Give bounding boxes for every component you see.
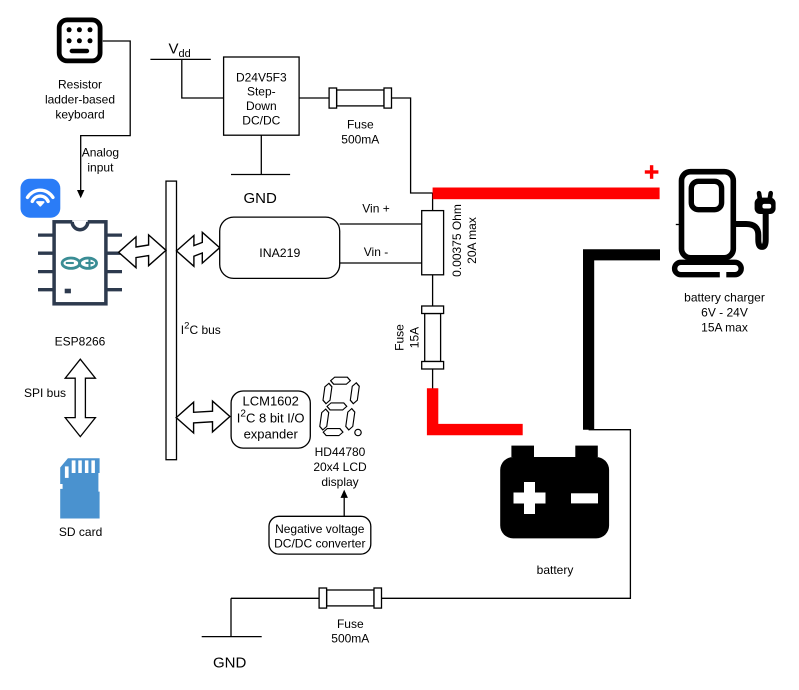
- resistor-ladder keyboard icon: [59, 20, 100, 61]
- wifi icon: [21, 179, 61, 218]
- shunt resistor R1 0.00375 Ohm: [422, 211, 444, 275]
- svg-text:I2C 8 bit I/O: I2C 8 bit I/O: [237, 409, 305, 426]
- ground GND (regulator): [260, 135, 262, 174]
- wire: red rail junction to shunt top: [432, 193, 434, 211]
- wire: Vin+: [340, 223, 422, 225]
- wire: thick black negative lead charger to battery: [589, 255, 660, 430]
- svg-text:Fuse500mA: Fuse500mA: [331, 617, 369, 645]
- wire: fuse F2 to red battery positive lead: [432, 369, 434, 389]
- svg-text:Vdd: Vdd: [169, 41, 191, 61]
- wire: thick red positive rail to charger: [433, 188, 660, 200]
- wire: battery negative return to fuse F3: [382, 430, 630, 599]
- svg-text:battery: battery: [537, 563, 574, 577]
- wire: shunt bottom to fuse F2: [432, 275, 434, 306]
- sensor U3 INA219: [220, 217, 340, 278]
- svg-text:Negative voltageDC/DC converte: Negative voltageDC/DC converter: [274, 522, 365, 550]
- bus link arrow: I2C bus to LCM1602: [176, 401, 230, 433]
- converter U5 negative voltage DC/DC: [269, 516, 371, 554]
- I2C bus bar: [166, 181, 177, 460]
- node: + polarity mark: [645, 165, 659, 179]
- svg-text:GND: GND: [244, 190, 278, 207]
- bus link arrow: ESP8266 to SD card (SPI): [65, 359, 95, 436]
- svg-text:Vin +: Vin +: [362, 202, 389, 216]
- svg-text:0.00375 Ohm20A max: 0.00375 Ohm20A max: [450, 204, 479, 277]
- expander U4 LCM1602 I2C 8-bit I/O: [231, 391, 310, 448]
- node Vdd: [150, 58, 210, 60]
- bus link arrow: ESP8266 to I2C bus: [119, 235, 166, 268]
- svg-text:Fuse15A: Fuse15A: [392, 324, 421, 351]
- wire: negative voltage converter to display: [343, 498, 345, 517]
- svg-text:Fuse500mA: Fuse500mA: [341, 117, 379, 146]
- svg-text:expander: expander: [244, 427, 299, 442]
- svg-text:HD4478020x4 LCDdisplay: HD4478020x4 LCDdisplay: [313, 445, 367, 489]
- fuse F1 500mA: [329, 88, 391, 108]
- fuse F3 500mA: [319, 588, 381, 608]
- battery B1 icon: [500, 446, 609, 539]
- wire: ground return to fuse F3: [231, 597, 319, 599]
- svg-text:SD card: SD card: [59, 525, 102, 539]
- LCD display icon (7-segment glyph): [318, 377, 361, 435]
- MCU U2 ESP8266 chip icon: [38, 220, 122, 304]
- bus link arrow: I2C bus to INA219: [177, 232, 220, 266]
- regulator U1 D24V5F3 Step-Down DC/DC: [224, 57, 300, 135]
- wire: fuse F1 to shunt / red positive rail: [392, 98, 433, 193]
- fuse F2 15A: [422, 306, 444, 369]
- svg-text:battery charger6V - 24V15A max: battery charger6V - 24V15A max: [684, 291, 765, 335]
- svg-text:Resistorladder-basedkeyboard: Resistorladder-basedkeyboard: [45, 77, 115, 121]
- SD card icon: [60, 458, 99, 518]
- svg-text:INA219: INA219: [259, 246, 300, 260]
- svg-text:GND: GND: [213, 655, 247, 672]
- ground GND (battery return): [230, 598, 232, 636]
- svg-text:LCM1602: LCM1602: [243, 394, 299, 409]
- svg-text:SPI bus: SPI bus: [24, 386, 66, 400]
- wire: thick red battery positive lead: [433, 388, 523, 429]
- svg-text:Vin -: Vin -: [364, 245, 388, 259]
- wire: Vin-: [340, 262, 422, 264]
- wire: keyboard to ESP8266 analog input: [81, 41, 131, 190]
- svg-text:ESP8266: ESP8266: [55, 334, 106, 348]
- svg-text:Analoginput: Analoginput: [82, 146, 119, 175]
- wire: DC/DC output to fuse F1: [299, 97, 329, 99]
- wire: Vdd to DC/DC input: [182, 59, 224, 98]
- battery charger icon: [675, 172, 776, 279]
- svg-text:I2C bus: I2C bus: [181, 320, 221, 337]
